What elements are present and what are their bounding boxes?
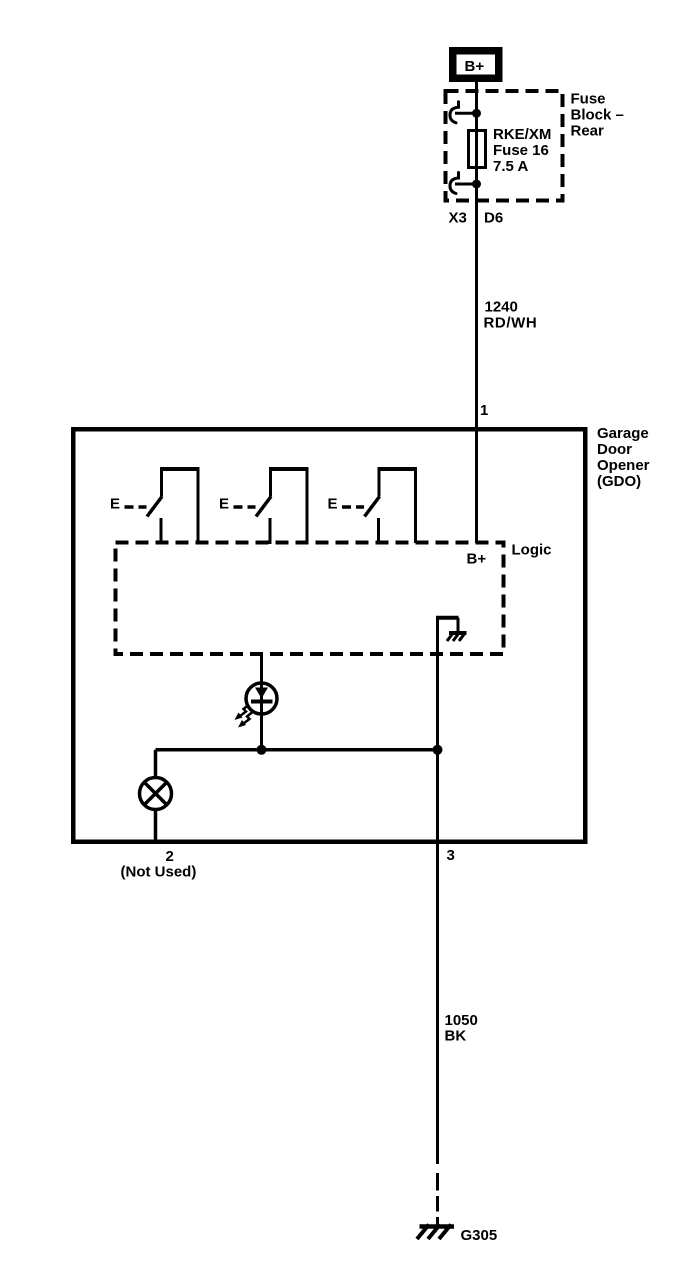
svg-text:RD/WH: RD/WH (484, 315, 538, 332)
svg-text:(Not Used): (Not Used) (121, 864, 197, 881)
svg-text:B+: B+ (467, 551, 487, 568)
svg-text:E: E (328, 496, 338, 513)
svg-text:BK: BK (445, 1028, 467, 1045)
svg-text:7.5 A: 7.5 A (493, 158, 528, 175)
svg-text:1: 1 (480, 402, 488, 419)
svg-text:Garage: Garage (597, 425, 649, 442)
svg-text:E: E (110, 496, 120, 513)
svg-text:G305: G305 (461, 1227, 498, 1244)
svg-text:Fuse: Fuse (571, 91, 606, 108)
svg-text:(GDO): (GDO) (597, 473, 641, 490)
svg-text:3: 3 (447, 847, 455, 864)
svg-text:Block –: Block – (571, 107, 624, 124)
svg-text:2: 2 (166, 848, 174, 865)
svg-text:Logic: Logic (512, 542, 552, 559)
svg-text:1050: 1050 (445, 1012, 478, 1029)
svg-text:RKE/XM: RKE/XM (493, 126, 551, 143)
svg-text:Fuse 16: Fuse 16 (493, 142, 549, 159)
svg-text:D6: D6 (484, 210, 503, 227)
svg-text:Opener: Opener (597, 457, 650, 474)
svg-text:E: E (219, 496, 229, 513)
svg-text:Rear: Rear (571, 123, 605, 140)
svg-text:1240: 1240 (485, 299, 518, 316)
svg-text:Door: Door (597, 441, 632, 458)
svg-text:X3: X3 (449, 210, 467, 227)
svg-text:B+: B+ (465, 58, 485, 75)
